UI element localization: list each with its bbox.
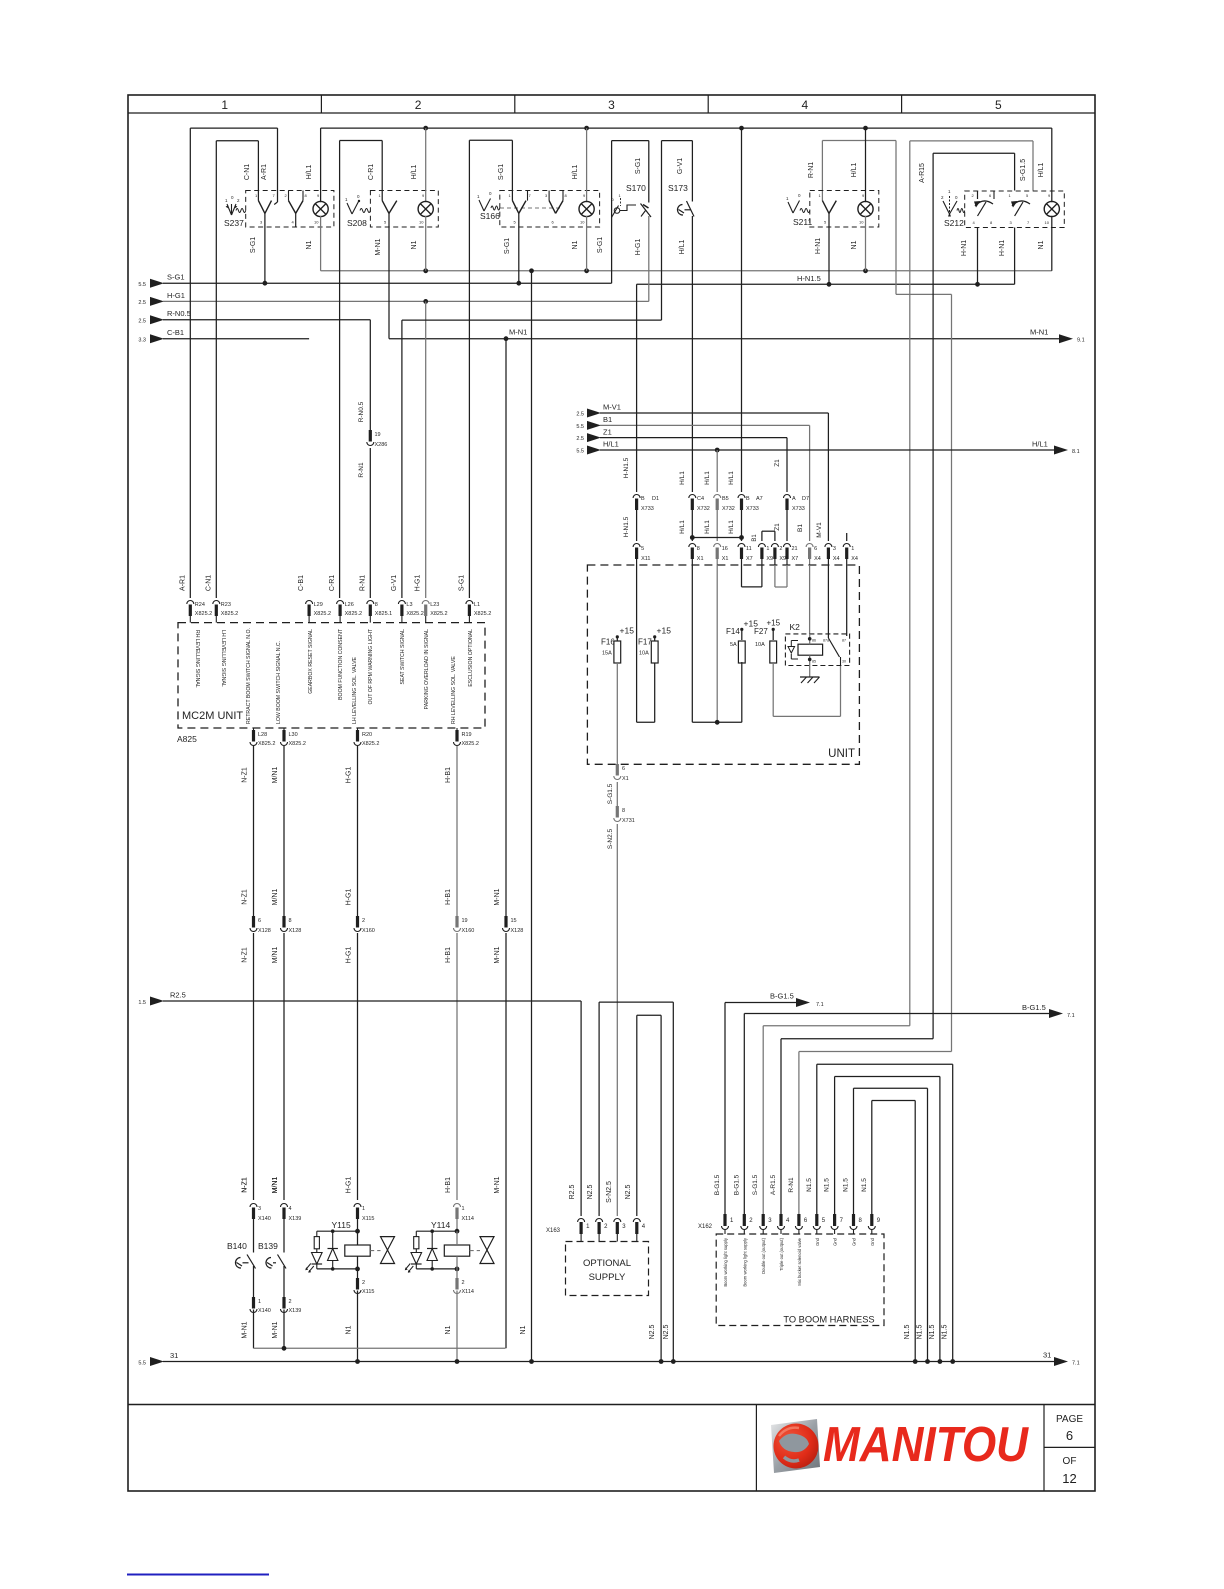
svg-text:2: 2 <box>779 546 782 552</box>
wire H-G1 connector down <box>357 933 359 1200</box>
svg-text:5.5: 5.5 <box>576 424 584 430</box>
svg-text:RH LEVELLING SIGNAL: RH LEVELLING SIGNAL <box>194 630 200 688</box>
svg-text:X825.2: X825.2 <box>195 611 212 617</box>
wire R-N1 staircase <box>798 1052 800 1215</box>
svg-text:M/N1: M/N1 <box>272 947 279 964</box>
svg-text:BOOM FUNCTION CONSENT: BOOM FUNCTION CONSENT <box>338 628 344 700</box>
svg-text:H-B1: H-B1 <box>445 1177 452 1193</box>
svg-text:X732: X732 <box>697 506 710 512</box>
terminal X286-19 <box>369 430 372 442</box>
svg-text:2.5: 2.5 <box>138 300 146 306</box>
wire M/N1 MC2M to connector <box>283 746 285 916</box>
svg-text:87: 87 <box>842 639 846 643</box>
svg-text:LH LEVELLING SIGNAL: LH LEVELLING SIGNAL <box>220 630 226 687</box>
svg-text:X825.2: X825.2 <box>406 611 423 617</box>
svg-text:M-N1: M-N1 <box>494 888 501 905</box>
svg-text:H-N1: H-N1 <box>815 238 822 254</box>
svg-text:S-G1: S-G1 <box>597 237 604 253</box>
svg-text:X825.2: X825.2 <box>474 611 491 617</box>
svg-text:10A: 10A <box>755 642 765 648</box>
svg-text:X825.2: X825.2 <box>362 741 379 747</box>
pin X1-8 <box>689 544 696 548</box>
contact S166 a <box>512 201 518 214</box>
svg-text:6: 6 <box>622 766 625 772</box>
svg-text:S-G1: S-G1 <box>498 164 505 180</box>
svg-text:H/L1: H/L1 <box>411 165 418 180</box>
wire N1 ground drop <box>531 271 533 1362</box>
svg-text:C-N1: C-N1 <box>244 164 251 180</box>
svg-text:2: 2 <box>462 1280 465 1286</box>
wire N1.5 loop 4 <box>871 1101 873 1215</box>
junction H-N1.5 S212 <box>975 282 980 287</box>
OPTIONAL SUPPLY box <box>566 1242 649 1296</box>
contact box S237 <box>246 191 334 228</box>
svg-text:3: 3 <box>833 546 836 552</box>
svg-text:Y115: Y115 <box>332 1220 351 1230</box>
wire H/L1 X1-16 inside <box>716 565 718 722</box>
svg-text:R23: R23 <box>221 602 231 608</box>
footer band line <box>128 1404 1095 1406</box>
svg-text:19: 19 <box>375 432 381 438</box>
svg-text:10: 10 <box>1045 220 1050 225</box>
pin X163-2 <box>596 1219 603 1222</box>
contact box S208 <box>370 191 438 228</box>
header band line <box>128 112 1095 114</box>
wire S-G1.5 from F16 <box>616 663 618 764</box>
svg-text:15: 15 <box>511 918 517 924</box>
TO BOOM HARNESS box <box>716 1234 884 1326</box>
svg-text:PARKING OVERLOAD IN SIGNAL: PARKING OVERLOAD IN SIGNAL <box>424 629 430 709</box>
svg-text:OPTIONAL: OPTIONAL <box>583 1258 631 1269</box>
connector X128-15 <box>504 916 507 928</box>
svg-text:F27: F27 <box>754 627 768 636</box>
solenoid valve Y114 <box>454 1204 461 1208</box>
svg-text:Mix bucket solenoid valve: Mix bucket solenoid valve <box>797 1237 802 1285</box>
svg-text:X732: X732 <box>722 506 735 512</box>
svg-text:B140: B140 <box>227 1241 247 1251</box>
svg-text:S-G1: S-G1 <box>635 158 642 174</box>
wire C-N1 loop <box>215 141 217 598</box>
svg-text:S-G1.5: S-G1.5 <box>607 783 614 804</box>
svg-text:L28: L28 <box>258 732 267 738</box>
terminal X825.2 L1 <box>466 601 473 604</box>
svg-text:H/L1: H/L1 <box>851 163 858 178</box>
svg-text:N1: N1 <box>445 1325 452 1334</box>
svg-text:X114: X114 <box>462 1289 474 1295</box>
svg-text:2: 2 <box>289 1299 292 1305</box>
svg-text:H-N1: H-N1 <box>961 240 968 256</box>
svg-text:Z1: Z1 <box>603 427 612 436</box>
wire M/N1 connector down <box>283 933 285 1200</box>
lamp H/L1 group1 <box>320 128 322 202</box>
svg-text:N1: N1 <box>411 240 418 249</box>
net C-B1 bus arrow <box>150 334 164 343</box>
svg-text:M-V1: M-V1 <box>603 403 621 412</box>
junction M-N1 drop <box>504 336 509 341</box>
svg-text:6: 6 <box>814 546 817 552</box>
terminal X825.2 L3 <box>398 601 405 604</box>
wire N1.5 loop 3 <box>853 1088 855 1214</box>
svg-text:M-N1: M-N1 <box>494 946 501 963</box>
MC2M unit box <box>178 623 485 728</box>
svg-text:H-N1.5: H-N1.5 <box>623 457 630 478</box>
wire H/L1 unit tie <box>692 721 742 723</box>
svg-text:X139: X139 <box>289 1216 302 1222</box>
svg-text:X4: X4 <box>833 556 840 562</box>
wire M-V1 bus <box>600 412 828 414</box>
wire R-N1 loop S211 <box>821 141 823 201</box>
wire A-R1 loop <box>189 128 191 598</box>
svg-text:X115: X115 <box>362 1289 374 1295</box>
svg-text:N1.5: N1.5 <box>942 1325 949 1340</box>
svg-text:31: 31 <box>1043 1351 1051 1360</box>
terminal X825.2 L26 <box>337 601 344 604</box>
terminal X733 A/D7 <box>784 495 791 498</box>
svg-text:X163: X163 <box>546 1228 561 1234</box>
svg-text:GEARBOX RESET SIGNAL: GEARBOX RESET SIGNAL <box>308 629 314 694</box>
ground symbol K2 <box>809 666 811 678</box>
svg-text:+15: +15 <box>657 626 672 636</box>
svg-text:4: 4 <box>802 98 809 112</box>
svg-text:X733: X733 <box>792 506 805 512</box>
svg-text:N1: N1 <box>306 240 313 249</box>
svg-text:S212: S212 <box>944 218 964 228</box>
svg-text:31: 31 <box>170 1351 178 1360</box>
contact box S166 <box>500 191 600 228</box>
junctions on 31 bus <box>355 1359 360 1364</box>
svg-text:X160: X160 <box>362 928 375 934</box>
svg-text:16: 16 <box>722 546 728 552</box>
junction S-G1 S237 <box>263 281 268 286</box>
solenoid valve Y115 <box>354 1204 361 1208</box>
svg-text:3: 3 <box>608 98 615 112</box>
svg-text:X733: X733 <box>641 506 654 512</box>
svg-text:X140: X140 <box>258 1308 271 1314</box>
wire H-N1 S212 a <box>977 228 979 285</box>
svg-text:H/L1: H/L1 <box>1032 440 1048 449</box>
wire S-G1.5 to X731 <box>616 782 618 806</box>
svg-text:87a: 87a <box>823 639 829 643</box>
svg-text:+15: +15 <box>767 619 781 628</box>
svg-text:C-R1: C-R1 <box>329 575 336 591</box>
svg-text:X825.2: X825.2 <box>289 741 306 747</box>
contact box S212 <box>965 191 1065 228</box>
svg-text:M-N1: M-N1 <box>272 1321 279 1338</box>
svg-text:R20: R20 <box>362 732 372 738</box>
svg-text:H-B1: H-B1 <box>445 889 452 905</box>
svg-text:M-N1: M-N1 <box>509 328 527 337</box>
svg-text:B1: B1 <box>797 524 804 532</box>
junction N1 S208 lamp <box>423 268 428 273</box>
svg-text:S-G1: S-G1 <box>504 238 511 254</box>
svg-text:A825: A825 <box>177 734 197 744</box>
svg-text:S-N2.5: S-N2.5 <box>606 1181 613 1203</box>
svg-text:H/L1: H/L1 <box>704 520 711 534</box>
svg-text:R-N0.5: R-N0.5 <box>358 401 365 422</box>
junction H/L1 lamp S211 <box>863 126 868 131</box>
pin X163-1 <box>578 1219 585 1222</box>
svg-text:9.1: 9.1 <box>1077 338 1085 344</box>
svg-text:B139: B139 <box>258 1241 278 1251</box>
svg-text:RETRACT BOOM SWITCH SIGNAL N.O: RETRACT BOOM SWITCH SIGNAL N.O. <box>246 628 252 724</box>
wire S-G1 from S237 <box>264 213 266 283</box>
svg-text:X825.2: X825.2 <box>462 741 479 747</box>
svg-text:X825.1: X825.1 <box>375 611 392 617</box>
svg-text:S237: S237 <box>224 218 244 228</box>
svg-text:N1.5: N1.5 <box>904 1325 911 1340</box>
svg-text:M/N1: M/N1 <box>272 767 279 784</box>
fuse F14 <box>740 628 743 631</box>
net H-G1 bus arrow <box>150 297 164 306</box>
svg-text:R-N0.5: R-N0.5 <box>167 309 191 318</box>
terminal X825.2 R19 bottom <box>456 728 458 730</box>
wire M-V1 to K2 87a <box>827 565 829 638</box>
svg-text:N-Z1: N-Z1 <box>242 889 249 905</box>
terminal X825.1 8 <box>367 601 374 604</box>
svg-text:7.1: 7.1 <box>816 1002 824 1008</box>
wire H/L1 bus mid <box>600 449 1054 451</box>
svg-text:12: 12 <box>1062 1471 1076 1486</box>
terminal X733 B/D1 <box>633 495 640 498</box>
svg-text:X140: X140 <box>258 1216 271 1222</box>
wire C-R1 loop <box>339 141 341 599</box>
svg-text:S-G1: S-G1 <box>250 237 257 253</box>
svg-text:2.5: 2.5 <box>576 412 584 418</box>
terminal X732 B5 <box>716 450 718 492</box>
svg-text:M-V1: M-V1 <box>816 522 823 538</box>
svg-text:8.1: 8.1 <box>1072 449 1080 455</box>
svg-text:N1.5: N1.5 <box>824 1178 831 1192</box>
svg-text:G-V1: G-V1 <box>391 575 398 591</box>
footer dividers <box>755 1405 757 1492</box>
svg-text:N1: N1 <box>851 240 858 249</box>
svg-text:LH LEVELLING SOL. VALVE: LH LEVELLING SOL. VALVE <box>352 656 358 724</box>
wire B1 bus <box>600 424 810 426</box>
blue footer rule <box>127 1574 269 1576</box>
svg-text:X162: X162 <box>698 1224 713 1230</box>
svg-text:X731: X731 <box>622 818 635 824</box>
net R-N0.5 bus arrow <box>150 315 164 324</box>
svg-text:X114: X114 <box>462 1216 474 1222</box>
junction H/L1 lamp S208 <box>423 126 428 131</box>
wire S-N2.5 to X163 <box>616 824 618 1216</box>
pin X162-3 <box>762 1214 765 1226</box>
pin X162-1 <box>723 1214 726 1226</box>
svg-text:Boom working light supply: Boom working light supply <box>723 1237 728 1287</box>
connector X128-8 <box>282 916 285 928</box>
svg-text:21: 21 <box>792 546 798 552</box>
svg-text:Boom working light supply: Boom working light supply <box>742 1237 747 1287</box>
svg-text:M-N1: M-N1 <box>242 1321 249 1338</box>
svg-text:H/L1: H/L1 <box>572 165 579 180</box>
svg-text:X825.2: X825.2 <box>258 741 275 747</box>
svg-text:X825.2: X825.2 <box>314 611 331 617</box>
svg-text:X4: X4 <box>814 556 821 562</box>
svg-text:N1: N1 <box>346 1325 353 1334</box>
svg-text:5A: 5A <box>730 642 737 648</box>
svg-text:B1: B1 <box>752 534 758 542</box>
pin X4-3 <box>825 544 832 548</box>
wire M-N1 drop <box>505 339 507 916</box>
svg-text:S166: S166 <box>480 211 500 221</box>
svg-text:S170: S170 <box>626 183 646 193</box>
svg-text:X1: X1 <box>622 776 629 782</box>
pin X4-1 <box>843 544 850 548</box>
svg-text:S-G1: S-G1 <box>167 273 185 282</box>
svg-text:X128: X128 <box>258 928 271 934</box>
svg-text:X4: X4 <box>851 556 858 562</box>
wire H-G1 bus <box>163 300 649 302</box>
svg-text:H/L1: H/L1 <box>603 440 619 449</box>
wire F27 to K2-30 <box>772 662 774 716</box>
svg-text:5: 5 <box>995 98 1002 112</box>
mechanical link S166 <box>500 207 560 209</box>
svg-text:C-B1: C-B1 <box>167 328 184 337</box>
wire M-N1 connector down <box>505 933 507 1348</box>
junction N1 S166 lamp <box>584 268 589 273</box>
svg-text:5.5: 5.5 <box>138 282 146 288</box>
svg-text:ESCLUSION OPTIONAL: ESCLUSION OPTIONAL <box>468 629 474 687</box>
svg-text:8: 8 <box>375 602 378 608</box>
svg-text:H-G1: H-G1 <box>167 291 185 300</box>
svg-text:H-G1: H-G1 <box>415 575 422 592</box>
svg-text:M/N1: M/N1 <box>272 889 279 906</box>
pin X4-6 <box>806 544 813 548</box>
svg-text:L3: L3 <box>406 602 412 608</box>
svg-text:H-B1: H-B1 <box>445 947 452 963</box>
svg-text:D1: D1 <box>652 496 659 502</box>
pin X9-1 <box>758 544 765 548</box>
contact S237 a <box>258 201 265 214</box>
svg-text:5.5: 5.5 <box>576 449 584 455</box>
svg-text:X286: X286 <box>375 442 388 448</box>
svg-text:A-R1: A-R1 <box>179 575 186 591</box>
svg-text:M/N1: M/N1 <box>272 1177 279 1194</box>
junction H-G1 MC2M <box>423 299 428 304</box>
svg-text:H-G1: H-G1 <box>635 239 642 256</box>
svg-text:D7: D7 <box>802 496 809 502</box>
wire H-N1.5 to X733 <box>636 284 638 492</box>
pin X7-11 <box>738 544 745 548</box>
junction H/L1 X732-B5 <box>715 448 720 453</box>
wire H-N1 from S211 <box>828 213 830 284</box>
svg-text:Gnd: Gnd <box>833 1237 838 1246</box>
wire Z1 bus <box>600 437 787 439</box>
wire H/L1 from S173 <box>691 216 693 492</box>
wire H-B1 connector down <box>456 933 458 1200</box>
wire H-B1 MC2M to connector <box>456 746 458 916</box>
svg-text:1: 1 <box>851 546 854 552</box>
terminal X825.2 R20 bottom <box>357 728 359 730</box>
net B1 arrow <box>587 421 601 430</box>
svg-text:N-Z1: N-Z1 <box>242 767 249 783</box>
wire N1.5 loop 1 <box>816 1064 818 1214</box>
svg-text:R-N1: R-N1 <box>788 1177 795 1193</box>
wire C-B1 bus <box>163 338 309 340</box>
lamp H/L1 group5 <box>1051 128 1053 202</box>
svg-text:R-N1: R-N1 <box>358 462 365 478</box>
svg-text:2.5: 2.5 <box>576 436 584 442</box>
fuse F16 <box>616 635 619 638</box>
svg-text:A: A <box>792 496 796 502</box>
terminal X733 B/A7 <box>738 495 745 498</box>
fuse F17 <box>653 635 656 638</box>
terminal X825.2 L30 bottom <box>283 728 285 730</box>
svg-text:10: 10 <box>580 220 585 225</box>
svg-text:F16: F16 <box>601 638 615 647</box>
svg-text:UNIT: UNIT <box>828 748 855 760</box>
svg-text:5: 5 <box>641 546 644 552</box>
svg-text:A7: A7 <box>756 496 763 502</box>
wire H/L1 top bus <box>321 127 1052 129</box>
svg-text:C-R1: C-R1 <box>368 164 375 180</box>
svg-text:R-N1: R-N1 <box>808 162 815 178</box>
pin X162-8 <box>852 1214 855 1226</box>
svg-text:B-G1.5: B-G1.5 <box>1022 1003 1046 1012</box>
svg-text:B1: B1 <box>603 415 612 424</box>
pin X11-5 <box>633 544 640 548</box>
contact S211 <box>822 201 829 214</box>
wire M-N1 bus <box>389 338 1059 340</box>
svg-text:8: 8 <box>622 808 625 814</box>
svg-text:15A: 15A <box>602 651 612 657</box>
svg-text:X160: X160 <box>462 928 475 934</box>
pin X162-7 <box>833 1214 836 1226</box>
pin X162-9 <box>870 1214 873 1226</box>
wire X9-2 to X7-21 jumper <box>774 565 776 587</box>
svg-text:1: 1 <box>221 98 228 112</box>
svg-text:H-G1: H-G1 <box>346 889 353 906</box>
svg-text:R19: R19 <box>462 732 472 738</box>
svg-text:N1.5: N1.5 <box>861 1178 868 1192</box>
svg-text:C4: C4 <box>697 496 704 502</box>
junction N1 S211 lamp <box>863 268 868 273</box>
svg-text:L29: L29 <box>314 602 323 608</box>
wire H-N1.5 rail <box>637 283 1015 285</box>
pin X162-6 <box>797 1214 800 1226</box>
net S-G1 bus arrow <box>150 279 164 288</box>
svg-text:X128: X128 <box>511 928 524 934</box>
svg-text:19: 19 <box>462 918 468 924</box>
svg-text:X1: X1 <box>722 556 729 562</box>
svg-text:8: 8 <box>289 918 292 924</box>
contact S237 b <box>288 191 290 201</box>
contact S208 <box>382 201 389 214</box>
svg-text:X9: X9 <box>766 556 773 562</box>
wire S-G1 from S166 <box>518 213 520 283</box>
svg-text:B-G1.5: B-G1.5 <box>714 1174 721 1195</box>
contact S212 a <box>977 191 979 199</box>
svg-text:N2.5: N2.5 <box>649 1325 656 1340</box>
wire H-G1 drop to MC2M <box>425 301 427 598</box>
wire G-V1 loop S173 <box>661 141 663 321</box>
svg-text:H/L1: H/L1 <box>679 520 686 534</box>
pin X1-16 <box>714 544 721 548</box>
junction H/L1 lamp S166 <box>584 126 589 131</box>
connector X160-19 <box>455 916 458 928</box>
svg-text:H/L1: H/L1 <box>728 520 735 534</box>
svg-text:H/L1: H/L1 <box>1038 163 1045 178</box>
svg-text:S-G1.5: S-G1.5 <box>1020 159 1027 181</box>
svg-text:X825.2: X825.2 <box>430 611 447 617</box>
svg-text:30: 30 <box>842 660 846 664</box>
svg-text:R24: R24 <box>195 602 205 608</box>
wire S-G1 to S170 <box>611 141 613 284</box>
svg-text:X11: X11 <box>641 556 650 562</box>
wire R-N0.5 bus <box>163 319 370 321</box>
svg-text:10A: 10A <box>639 651 649 657</box>
wire H/L1 X1-8 inside <box>691 565 693 722</box>
